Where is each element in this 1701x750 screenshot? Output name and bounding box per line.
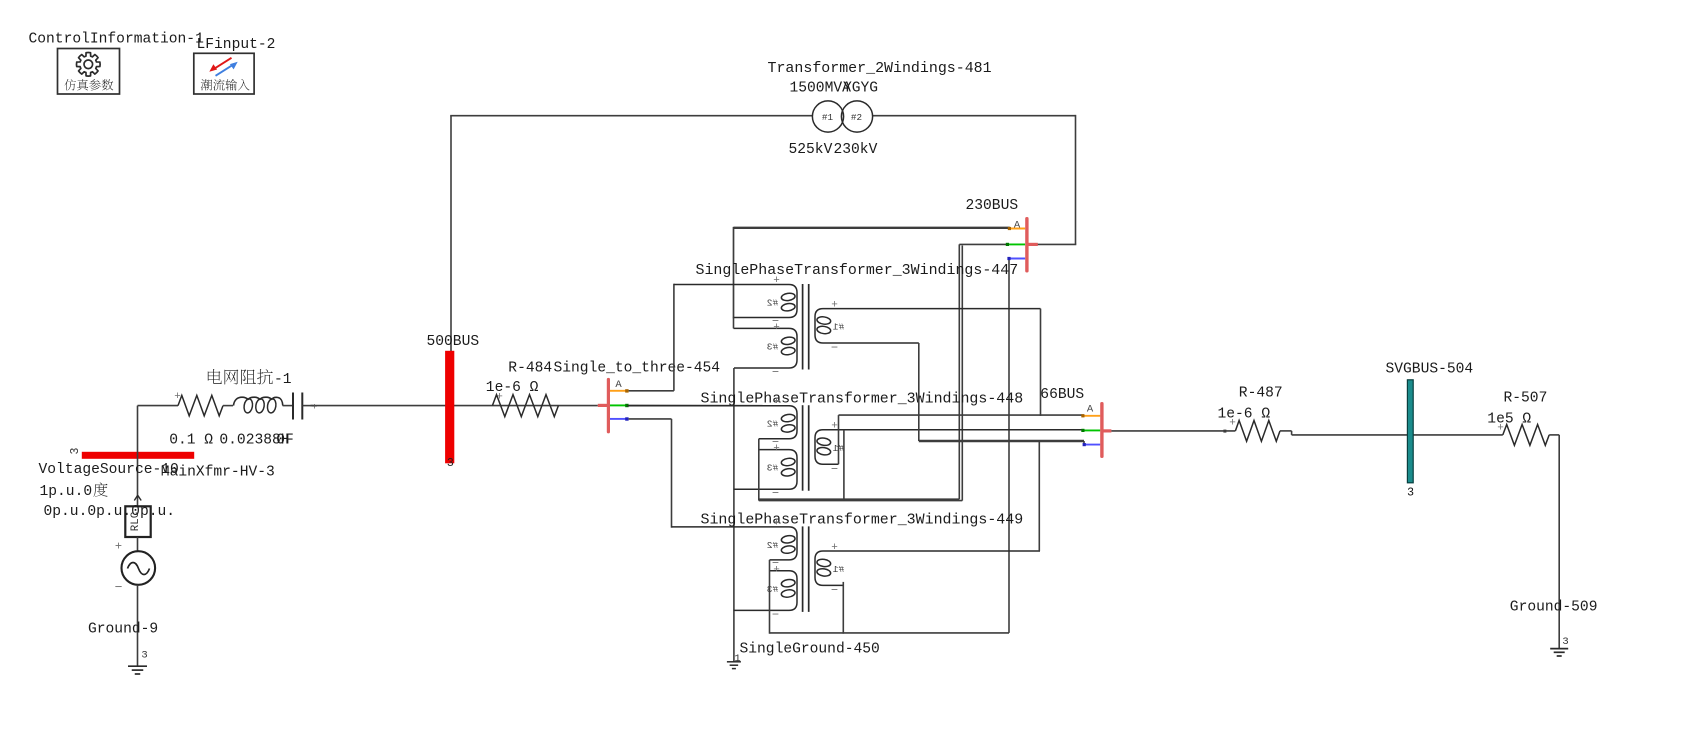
svg-text:0.1 Ω: 0.1 Ω [169, 432, 213, 448]
ground symbol Ground-9 [128, 665, 147, 667]
svg-text:+: + [773, 564, 780, 576]
svg-text:230kV: 230kV [834, 142, 878, 158]
wire 447 #3 bottom to SingleGround (long vertical) [733, 368, 735, 662]
svg-text:#2: #2 [767, 419, 779, 430]
svg-text:−: − [831, 341, 838, 355]
inductor 0.02388H (grid impedance) [234, 397, 249, 405]
svg-text:#3: #3 [767, 341, 779, 352]
wire 448 series link and drop to B-phase return [758, 439, 760, 501]
red arrow icon (LFinput-2) [209, 58, 231, 72]
svg-text:SVGBUS-504: SVGBUS-504 [1386, 361, 1474, 377]
svg-text:R-484: R-484 [508, 360, 552, 376]
svg-text:+: + [831, 542, 838, 554]
svg-text:#2: #2 [767, 298, 779, 309]
svg-text:A: A [615, 379, 622, 391]
svg-text:−: − [831, 584, 838, 598]
transformer 447 core (double bars) [802, 284, 804, 370]
arrow head on source wire [134, 495, 141, 500]
bus 66BUS (vertical red bar) [1100, 402, 1103, 458]
svg-text:+: + [1497, 423, 1504, 435]
transformer 449 core (double bars) [802, 526, 804, 612]
svg-text:#2: #2 [767, 540, 779, 551]
svg-text:66BUS: 66BUS [1040, 387, 1084, 403]
resistor R-487 [1235, 421, 1280, 442]
svg-text:Transformer_2Windings-481: Transformer_2Windings-481 [768, 61, 992, 77]
svg-text:#1: #1 [833, 564, 845, 575]
wire phase B from Single_to_three to transformer 448 (long horizontal) [629, 404, 790, 406]
phase A stub (orange) of Single_to_three-454 [610, 390, 626, 392]
svg-text:VoltageSource-10: VoltageSource-10 [39, 462, 179, 478]
svg-text:+: + [831, 421, 838, 433]
svg-text:+: + [773, 322, 780, 334]
svg-text:R-507: R-507 [1504, 391, 1548, 407]
RLC block of VoltageSource-10 [125, 506, 150, 537]
transformer 447 winding #1 (right) [815, 309, 1041, 343]
blue arrow icon (LFinput-2) [216, 62, 238, 76]
wire capacitor to 500BUS [302, 405, 313, 407]
wire 449 #1 top up to 66BUS line [1038, 441, 1040, 551]
svg-text:1500MVA: 1500MVA [790, 81, 852, 97]
transformer 448 winding #1 (right) [815, 430, 1084, 464]
junction dot on 66BUS wire [1223, 430, 1226, 433]
wire 449 series link down to C-phase return [769, 560, 771, 634]
resistor R-507 [1503, 425, 1549, 446]
svg-text:230BUS: 230BUS [966, 198, 1019, 214]
svg-text:+: + [773, 396, 780, 408]
svg-text:SinglePhaseTransformer_3Windin: SinglePhaseTransformer_3Windings-449 [701, 513, 1024, 529]
svg-text:Ground-509: Ground-509 [1510, 599, 1598, 615]
svg-text:−: − [772, 608, 779, 622]
wire 447 #1 bottom down to 66BUS C-phase line [918, 343, 920, 441]
svg-text:A: A [1087, 403, 1094, 415]
caption 仿真参数 [65, 79, 76, 90]
svg-text:1e-6 Ω: 1e-6 Ω [486, 380, 539, 396]
phase C stub (blue) of Single_to_three-454 [610, 418, 626, 420]
ground symbol SingleGround-450 [727, 661, 741, 663]
capacitor 0F (grid impedance) [292, 393, 294, 420]
phase C stub (blue) of 230BUS [1009, 258, 1025, 260]
wire phase C from Single_to_three down to transformer 449 [629, 418, 672, 420]
wire RLC to AC source circle [137, 537, 139, 552]
wire resistor to inductor [223, 405, 233, 407]
svg-text:#1: #1 [833, 322, 845, 333]
bus SVGBUS-504 (teal bar) [1407, 380, 1413, 483]
svg-text:SinglePhaseTransformer_3Windin: SinglePhaseTransformer_3Windings-448 [701, 391, 1024, 407]
svg-text:#3: #3 [767, 584, 779, 595]
wire 230BUS phase B down to transformer 448 [959, 243, 1008, 245]
wire from 500BUS top to transformer 481 primary [450, 116, 452, 352]
svg-text:+: + [1229, 418, 1236, 430]
bus 230BUS (vertical red bar) [1025, 217, 1028, 273]
phase B stub (green) of 66BUS [1084, 429, 1101, 431]
phase C stub (blue) of 66BUS [1084, 444, 1100, 446]
svg-text:0p.u.0p.u.0p.u.: 0p.u.0p.u.0p.u. [44, 504, 176, 520]
bus 230BUS right stub (red cross) [1026, 243, 1038, 246]
phase A stub (orange) of 66BUS [1084, 415, 1101, 417]
svg-text:500BUS: 500BUS [427, 334, 480, 350]
svg-text:1: 1 [734, 653, 740, 665]
wire voltage source vertical (through MainXfmr bus) [137, 406, 139, 507]
wire 448 #1 top jog (A-phase link) [838, 415, 840, 464]
svg-text:Single_to_three-454: Single_to_three-454 [554, 360, 721, 376]
svg-text:−: − [831, 462, 838, 476]
AC source circle (VoltageSource-10) [122, 551, 156, 585]
svg-text:+: + [115, 540, 122, 554]
transformer T481 winding circle #1 [812, 101, 843, 132]
single-to-three red bar (Single_to_three-454) [598, 404, 608, 407]
wire 448 #1 auxiliary drop [843, 430, 845, 501]
svg-text:3: 3 [69, 447, 82, 454]
control block box (LFinput-2) [194, 53, 254, 94]
svg-text:3: 3 [447, 457, 454, 470]
svg-text:+: + [773, 443, 780, 455]
bus MainXfmr-HV-3 (horizontal red bus bar) [82, 452, 194, 459]
control block U-CI box (ControlInformation-1) [58, 49, 120, 95]
resistor R-484 [492, 395, 558, 417]
wire R-507 to Ground-509 [1549, 434, 1559, 436]
svg-text:3: 3 [1562, 636, 1568, 648]
wire 230BUS phase C down to transformers 448/449 [1008, 259, 1010, 633]
wire R-487 to SVGBUS (with jog) [1280, 430, 1292, 432]
ground symbol Ground-509 [1550, 648, 1568, 650]
svg-text:SinglePhaseTransformer_3Windin: SinglePhaseTransformer_3Windings-447 [696, 263, 1019, 279]
svg-text:+: + [773, 275, 780, 287]
svg-text:LFinput-2: LFinput-2 [197, 37, 276, 53]
svg-text:Ground-9: Ground-9 [88, 622, 158, 638]
svg-text:+: + [773, 517, 780, 529]
phase B stub (green) of 230BUS [1007, 243, 1025, 245]
transformer T481 winding circle #2 [841, 101, 872, 132]
svg-text:#3: #3 [767, 463, 779, 474]
wire source to Ground-9 [137, 585, 139, 666]
svg-text:-1: -1 [274, 372, 292, 388]
phase B stub (green) of Single_to_three-454 [610, 404, 626, 406]
wire 447 #1 top down to 66BUS A-phase line [1040, 309, 1042, 416]
svg-text:SingleGround-450: SingleGround-450 [740, 641, 880, 657]
svg-text:#1: #1 [822, 112, 834, 123]
wire 447 series link #2-#3 [733, 318, 735, 329]
gear icon inside ControlInformation-1 [77, 53, 101, 77]
wire 66BUS to R-487 [1111, 430, 1235, 432]
svg-text:R-487: R-487 [1239, 385, 1283, 401]
svg-text:3: 3 [1407, 487, 1414, 500]
bus 500BUS (vertical red bar) [445, 351, 454, 464]
svg-text:+: + [312, 402, 318, 413]
wire 449 #1 bottom drop [842, 582, 844, 634]
main wire from voltage source corner to resistor [138, 405, 179, 407]
svg-text:A: A [1014, 219, 1021, 231]
transformer 447 winding #3 (left bottom) [734, 328, 798, 368]
transformer 448 winding #3 (left bottom) [734, 450, 798, 490]
label 电网阻抗-1 (grid impedance) [208, 369, 222, 384]
caption 潮流输入 [201, 79, 212, 90]
wire phase A from Single_to_three up to transformer 447 [629, 390, 674, 392]
phase A stub (orange) of 230BUS [1009, 228, 1026, 230]
svg-text:YGYG: YGYG [843, 81, 878, 97]
svg-text:−: − [772, 366, 779, 380]
transformer 447 winding #2 (left top) [674, 285, 797, 318]
svg-text:ControlInformation-1: ControlInformation-1 [29, 31, 205, 47]
svg-text:3: 3 [141, 650, 147, 662]
resistor 0.1 ohm (grid impedance) [178, 395, 223, 415]
transformer 449 winding #2 (left top) [672, 527, 798, 560]
svg-text:−: − [772, 487, 779, 501]
svg-text:1p.u.0: 1p.u.0 [40, 484, 93, 500]
transformer 448 winding #2 (left top) [627, 406, 797, 439]
svg-text:0F: 0F [276, 432, 294, 448]
wire 230BUS phase A to transformer 447 (thick) [734, 227, 1010, 229]
wire from transformer 481 secondary to 230BUS [872, 115, 1075, 117]
svg-text:−: − [115, 580, 123, 595]
bus 66BUS right stub (red cross) [1101, 429, 1111, 432]
svg-text:1e5 Ω: 1e5 Ω [1487, 412, 1531, 428]
svg-text:+: + [831, 299, 838, 311]
transformer 448 core (double bars) [802, 405, 804, 491]
svg-text:1e-6 Ω: 1e-6 Ω [1218, 406, 1271, 422]
transformer 449 winding #1 (right) [815, 551, 1040, 585]
svg-text:#2: #2 [851, 112, 862, 123]
transformer 449 winding #3 (left bottom) [734, 571, 798, 611]
svg-text:525kV: 525kV [789, 142, 833, 158]
wire inductor to capacitor [283, 405, 293, 407]
